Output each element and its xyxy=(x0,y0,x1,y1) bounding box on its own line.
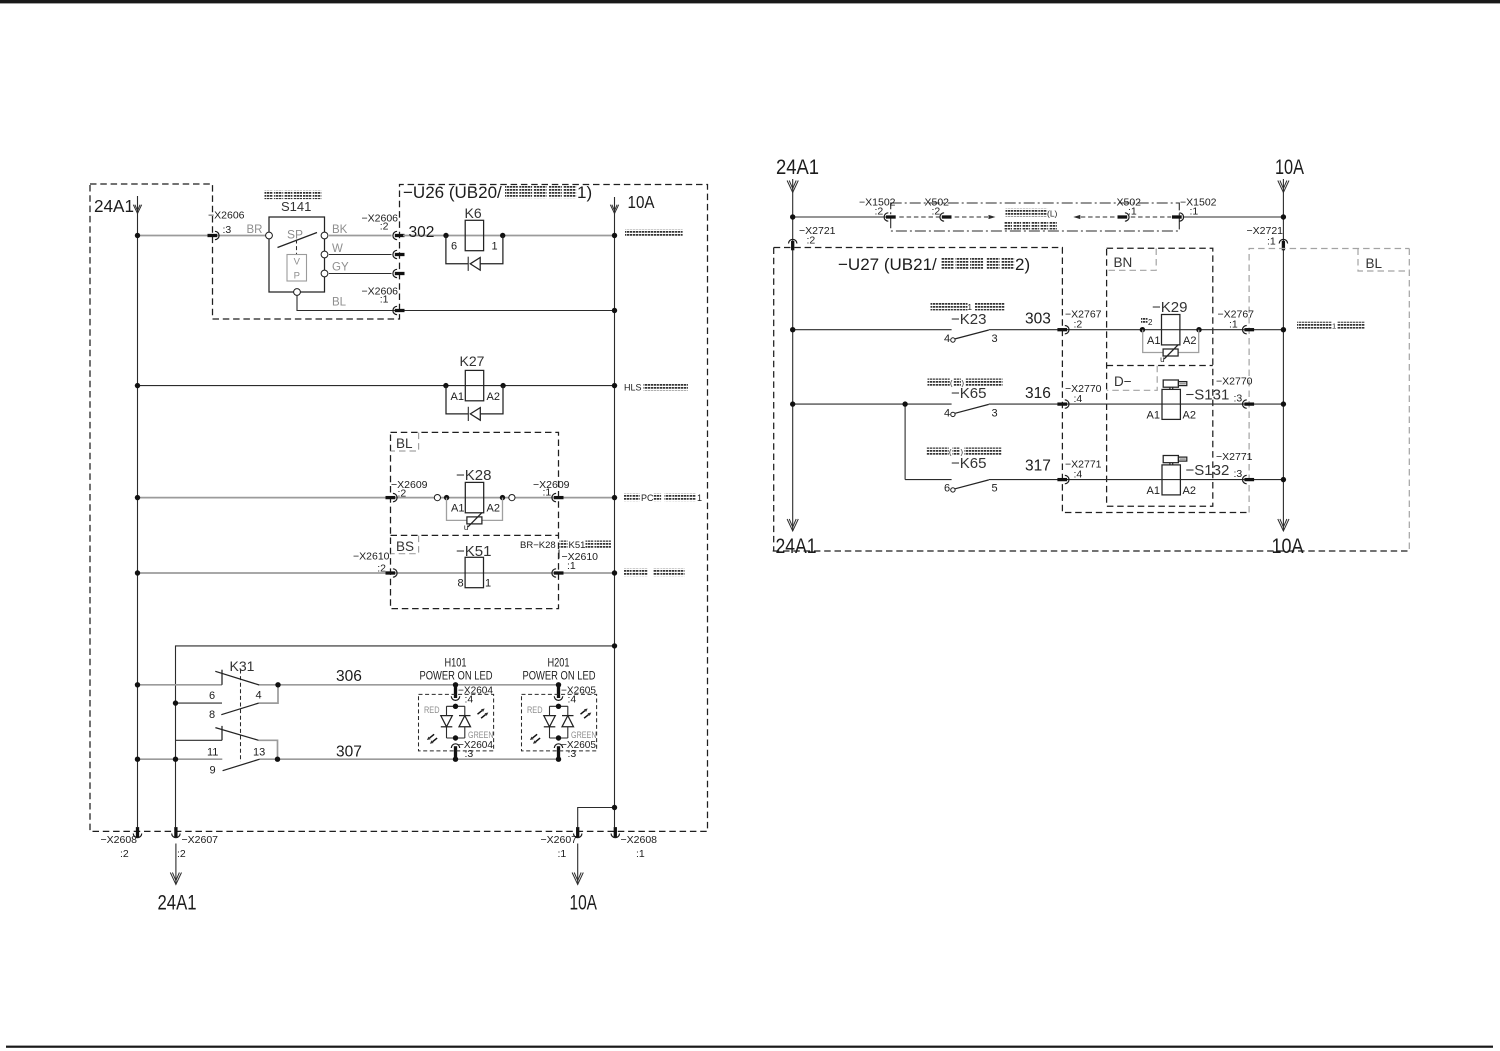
svg-text::2: :2 xyxy=(177,848,186,860)
connector X2606:2 xyxy=(395,234,405,237)
node 24A1 top wire xyxy=(790,214,795,219)
svg-text:−X2605: −X2605 xyxy=(561,685,596,697)
node 316 right xyxy=(1281,401,1286,406)
svg-text:316: 316 xyxy=(1025,385,1051,402)
svg-text:W: W xyxy=(332,243,343,255)
node fan right xyxy=(612,570,617,575)
svg-text::1: :1 xyxy=(380,294,389,306)
outer cable box BL (gray dashed) xyxy=(1249,249,1409,513)
svg-text::1: :1 xyxy=(1128,206,1137,218)
connector X2606:1 xyxy=(395,309,405,312)
node PC left xyxy=(135,495,140,500)
lock solenoid S132 xyxy=(1162,465,1180,495)
svg-text:−X2610: −X2610 xyxy=(353,551,390,563)
svg-text:A1: A1 xyxy=(451,391,464,403)
svg-text:307: 307 xyxy=(336,744,362,761)
rail 24A1 (U27) xyxy=(792,179,794,531)
wire GY xyxy=(329,273,392,275)
svg-text:2: 2 xyxy=(1148,318,1153,327)
K31 pin13 jog (gray) xyxy=(259,740,278,759)
wire W xyxy=(329,254,392,256)
K31 contact lower arm xyxy=(215,728,258,741)
svg-text::3: :3 xyxy=(223,224,232,236)
svg-text::1: :1 xyxy=(543,487,552,499)
svg-text:−X1502: −X1502 xyxy=(1180,197,1217,209)
connector X2770:3 xyxy=(1244,402,1254,405)
cable wire X1502-X502 left xyxy=(899,216,940,218)
svg-text::4: :4 xyxy=(1074,393,1083,405)
svg-text:K6: K6 xyxy=(465,205,482,221)
svg-text:u: u xyxy=(464,523,468,532)
connector X2609:1 xyxy=(554,496,564,499)
node pin4 on 306 xyxy=(275,682,280,687)
svg-text::3: :3 xyxy=(465,748,474,760)
svg-text:A2: A2 xyxy=(487,503,500,515)
label vacuum pump1 power input xyxy=(1297,322,1304,329)
svg-text:−S132: −S132 xyxy=(1186,462,1230,479)
pressure switch S141 label xyxy=(265,191,274,200)
connector X2608:1 xyxy=(614,827,617,838)
svg-text:−K28: −K28 xyxy=(456,467,491,484)
svg-text:RED: RED xyxy=(424,705,440,716)
node HLS right xyxy=(612,383,617,388)
node HLS left xyxy=(135,383,140,388)
lock solenoid S131 xyxy=(1162,389,1180,419)
connector X2609:2 xyxy=(386,496,396,499)
node 307 feed xyxy=(173,757,178,762)
svg-text:1: 1 xyxy=(485,578,491,590)
node PC right xyxy=(612,495,617,500)
svg-text:A2: A2 xyxy=(1183,485,1196,497)
svg-text:1: 1 xyxy=(1332,322,1336,331)
label cover-front lock control xyxy=(927,448,934,455)
lamp H101 (red/green LED) xyxy=(454,687,457,698)
svg-text:SP: SP xyxy=(287,228,303,242)
NO indicator circles K28 xyxy=(434,495,440,501)
node K29 left xyxy=(1140,327,1145,332)
svg-text::1: :1 xyxy=(1267,236,1276,248)
cable tag D- xyxy=(1107,366,1157,391)
cable tag BS xyxy=(391,536,419,554)
svg-text:K31: K31 xyxy=(230,658,255,674)
svg-text::3: :3 xyxy=(1234,468,1243,480)
node 306 left rail xyxy=(135,682,140,687)
svg-text:2): 2) xyxy=(1015,255,1030,274)
svg-text:302: 302 xyxy=(409,224,435,241)
svg-text:−U26 (UB20/: −U26 (UB20/ xyxy=(403,183,502,202)
svg-text:8: 8 xyxy=(458,578,464,590)
svg-text:−U27 (UB21/: −U27 (UB21/ xyxy=(838,255,937,274)
svg-text:317: 317 xyxy=(1025,458,1051,475)
cable tag BL xyxy=(391,433,419,451)
pressure switch S141 body xyxy=(269,217,325,292)
K31 pin4 jog (gray) xyxy=(259,685,278,703)
connector X2606 W pin xyxy=(395,253,405,256)
board U27 boundary (dashed) xyxy=(774,248,1249,513)
top border bar xyxy=(0,0,1500,3)
diode across K6 xyxy=(446,236,468,264)
connector X2606 GY pin xyxy=(395,272,405,275)
svg-text::4: :4 xyxy=(1074,469,1083,481)
wire BK to connector (gray) xyxy=(329,235,392,237)
svg-text::2: :2 xyxy=(875,206,884,218)
arrow 10A in xyxy=(614,197,616,214)
connector X2610:1 xyxy=(554,571,564,574)
wire 10A bottom branch xyxy=(578,808,615,828)
node 316 left xyxy=(790,401,795,406)
top distribution wire xyxy=(793,216,887,218)
node 306 H101 xyxy=(453,682,458,687)
svg-text:24A1: 24A1 xyxy=(776,156,819,179)
cable tag BL (U27) xyxy=(1358,249,1409,272)
cable box around K28/K51 xyxy=(391,432,559,608)
S141 pressure element V/P xyxy=(287,255,307,282)
connector X2721:2 xyxy=(791,241,794,251)
svg-text:6: 6 xyxy=(944,483,950,495)
connector X2608:2 xyxy=(136,827,139,838)
svg-text:−X2606: −X2606 xyxy=(208,210,245,222)
svg-text:8: 8 xyxy=(209,709,215,721)
svg-text:4: 4 xyxy=(944,408,950,420)
varistor across K29 xyxy=(1143,330,1163,353)
svg-text::3: :3 xyxy=(568,748,577,760)
svg-text:−X2604: −X2604 xyxy=(458,739,493,751)
connector X502:1 xyxy=(1118,215,1128,218)
connector X2770:4 xyxy=(1057,402,1067,405)
diode across K27 xyxy=(446,386,468,414)
label PC-group power-on 1 xyxy=(624,494,632,502)
wire 306 (gray) xyxy=(138,684,223,686)
svg-text:H101: H101 xyxy=(445,656,467,670)
svg-text:−X2607: −X2607 xyxy=(182,834,219,846)
rail 10A (U27) xyxy=(1282,179,1284,531)
K31 contact upper arm xyxy=(215,671,259,685)
svg-text::4: :4 xyxy=(568,694,577,706)
svg-text:−X2771: −X2771 xyxy=(1065,459,1102,471)
arrow 24A1 out (U27) xyxy=(787,519,798,531)
node HLS K27 left xyxy=(443,383,448,388)
svg-text:−X2770: −X2770 xyxy=(1065,383,1102,395)
node K28 right xyxy=(500,495,505,500)
connector X502:2 xyxy=(942,215,952,218)
svg-text:−K23: −K23 xyxy=(951,311,986,328)
svg-text:9: 9 xyxy=(210,765,216,777)
K31 pin11 stub xyxy=(176,739,223,741)
svg-text:−X2767: −X2767 xyxy=(1065,309,1102,321)
svg-text:BK: BK xyxy=(332,224,348,236)
connector X1502:1 xyxy=(1172,215,1182,218)
lamp H201 (red/green LED) xyxy=(557,687,560,698)
wire PC-power rail (gray) xyxy=(138,497,615,499)
arrow 10A in (U27) xyxy=(1278,181,1289,193)
svg-text:−K65: −K65 xyxy=(951,385,986,402)
svg-text:11: 11 xyxy=(207,746,218,758)
svg-text:POWER ON LED: POWER ON LED xyxy=(523,671,596,683)
svg-text:−X2604: −X2604 xyxy=(458,685,493,697)
node 306 H201 xyxy=(556,682,561,687)
connector X2767:1 xyxy=(1244,328,1254,331)
cable wire with left arrow xyxy=(1073,215,1080,219)
K31 contact upper fixed tick xyxy=(221,670,223,685)
svg-text:−S131: −S131 xyxy=(1186,387,1230,404)
svg-text:−X2721: −X2721 xyxy=(799,225,836,237)
svg-text:−X2607: −X2607 xyxy=(541,834,578,846)
arrow 24A1 in xyxy=(137,196,139,214)
svg-text::1: :1 xyxy=(1229,319,1238,331)
wire 303 row xyxy=(793,329,952,331)
svg-text::2: :2 xyxy=(380,221,389,233)
wire 307 (gray) xyxy=(138,758,223,760)
node wire302 / K6 xyxy=(443,233,448,238)
svg-text:K51: K51 xyxy=(569,540,586,551)
cable box BN/D (dashed) xyxy=(1107,248,1213,506)
svg-text:−K65: −K65 xyxy=(951,455,986,472)
svg-text:u: u xyxy=(1160,355,1164,364)
K31 pin9 arm xyxy=(223,759,260,771)
svg-text:−X2609: −X2609 xyxy=(533,479,570,491)
svg-text:PC: PC xyxy=(641,493,654,503)
arrow 24A1 in (U27) xyxy=(787,181,798,193)
arrow 10A out xyxy=(577,844,579,885)
svg-text::2: :2 xyxy=(120,848,129,860)
svg-text:(L): (L) xyxy=(1047,209,1058,219)
svg-text:BL: BL xyxy=(396,436,413,451)
svg-text:24A1: 24A1 xyxy=(776,535,817,558)
node branch 316 xyxy=(902,401,907,406)
tray safety circuit box (chain line) xyxy=(891,203,1180,231)
node 303 left xyxy=(790,327,795,332)
left rail 24A1 xyxy=(137,213,139,827)
svg-text:6: 6 xyxy=(209,690,215,702)
feedback wire from 10A rail xyxy=(176,646,615,827)
svg-text::1: :1 xyxy=(567,560,576,572)
wire BR (gray) xyxy=(138,235,266,237)
svg-text:BS: BS xyxy=(396,539,414,554)
svg-text:BL: BL xyxy=(332,297,347,309)
svg-text:1: 1 xyxy=(697,493,702,503)
svg-text:10A: 10A xyxy=(628,192,655,212)
svg-text:3: 3 xyxy=(992,408,998,420)
svg-text:H201: H201 xyxy=(548,656,570,670)
svg-text:24A1: 24A1 xyxy=(94,196,134,216)
svg-text:RED: RED xyxy=(527,705,543,716)
node 10A top wire xyxy=(1281,214,1286,219)
svg-text:24A1: 24A1 xyxy=(158,891,197,915)
svg-text:303: 303 xyxy=(1025,311,1051,328)
svg-text:HLS: HLS xyxy=(624,383,642,393)
svg-text::2: :2 xyxy=(398,488,407,500)
arrow 24A1 out xyxy=(175,844,177,885)
svg-text:−X2771: −X2771 xyxy=(1216,451,1253,463)
svg-text:A2: A2 xyxy=(487,391,500,403)
cable wire with right arrow xyxy=(955,216,988,218)
node pin13 on 307 xyxy=(275,757,280,762)
svg-text:1): 1) xyxy=(577,183,592,202)
wire HLS rail xyxy=(138,385,615,387)
svg-text:GY: GY xyxy=(332,262,349,274)
node BL right rail xyxy=(612,308,617,313)
svg-text:BL: BL xyxy=(1366,256,1383,271)
wire BL from S141 bottom xyxy=(297,295,615,310)
connector X2610:2 xyxy=(386,571,396,574)
label vacuum pump1 power control xyxy=(931,303,938,310)
label cover-rear lock control xyxy=(928,379,935,386)
svg-text::2: :2 xyxy=(377,563,386,575)
svg-text:A2: A2 xyxy=(1183,335,1196,347)
svg-text:4: 4 xyxy=(256,689,262,701)
svg-text:A1: A1 xyxy=(451,503,464,515)
K31 mechanical link xyxy=(240,670,242,763)
cable wire X502-X1502 right xyxy=(1131,216,1171,218)
wire 302 (gray) xyxy=(403,235,615,237)
svg-text:−X2608: −X2608 xyxy=(621,834,658,846)
svg-text::3: :3 xyxy=(1234,393,1243,405)
svg-text:10A: 10A xyxy=(1275,156,1304,179)
svg-text:BR−K28: BR−K28 xyxy=(520,540,556,551)
svg-text:6: 6 xyxy=(451,241,457,253)
svg-text::1: :1 xyxy=(558,848,567,860)
cable tag BN xyxy=(1107,249,1156,271)
svg-text:POWER ON LED: POWER ON LED xyxy=(420,671,493,683)
tray box label xyxy=(1006,209,1014,217)
arrow 10A out (U27) xyxy=(1278,519,1289,531)
svg-text:−K29: −K29 xyxy=(1152,299,1187,316)
svg-text:P: P xyxy=(294,271,300,282)
K31 pin6 stub xyxy=(176,702,223,704)
K31 contact lower fixed tick xyxy=(221,726,223,740)
svg-text:A1: A1 xyxy=(1147,335,1160,347)
svg-text:306: 306 xyxy=(336,668,362,685)
label air-pressure-low output xyxy=(625,230,632,237)
svg-text:A2: A2 xyxy=(1183,410,1196,422)
svg-text:1: 1 xyxy=(492,241,498,253)
svg-text::4: :4 xyxy=(465,694,474,706)
connector X2767:2 xyxy=(1057,328,1067,331)
svg-text:A1: A1 xyxy=(1147,485,1160,497)
svg-text:−X2770: −X2770 xyxy=(1216,376,1253,388)
svg-text::2: :2 xyxy=(1074,319,1083,331)
svg-text::2: :2 xyxy=(932,206,941,218)
wire 317 row xyxy=(905,479,952,481)
connector X2607:1 xyxy=(576,827,579,838)
svg-text:BR: BR xyxy=(247,224,263,236)
node K29 right xyxy=(1196,327,1201,332)
svg-text:S141: S141 xyxy=(281,199,311,214)
node K28 left xyxy=(444,495,449,500)
K31 pin8 arm xyxy=(221,703,258,715)
node 307 left rail xyxy=(135,757,140,762)
svg-text::2: :2 xyxy=(807,235,816,247)
svg-text:−X2605: −X2605 xyxy=(561,739,596,751)
wire fan rail (gray) xyxy=(138,572,615,574)
label fan power-on xyxy=(624,569,632,577)
svg-text:13: 13 xyxy=(253,746,265,758)
node HLS K27 right xyxy=(500,383,505,388)
node 307 H201 xyxy=(556,757,561,762)
node 307 H101 xyxy=(453,757,458,762)
connector X2771:4 xyxy=(1057,478,1067,481)
connector X2771:3 xyxy=(1244,478,1254,481)
svg-text:V: V xyxy=(294,257,301,268)
right rail 10A xyxy=(614,213,616,827)
node bottom branch xyxy=(612,805,617,810)
svg-text:−X2608: −X2608 xyxy=(101,834,138,846)
svg-text:10A: 10A xyxy=(1272,535,1304,558)
svg-text:10A: 10A xyxy=(570,891,598,915)
connector X1502:2 xyxy=(886,215,896,218)
node pin6 stub xyxy=(173,700,178,705)
node left rail / wire 302 xyxy=(135,233,140,238)
node 303 right xyxy=(1281,327,1286,332)
svg-text:K27: K27 xyxy=(460,353,485,369)
svg-text::1: :1 xyxy=(1190,206,1199,218)
node feedback right rail xyxy=(612,643,617,648)
connector X2607:2 xyxy=(174,827,177,838)
note 2 xyxy=(1141,318,1148,325)
svg-text:BN: BN xyxy=(1114,255,1133,270)
varistor across K28 xyxy=(447,498,467,521)
branch to 317 xyxy=(904,404,906,480)
connector X2606:3 xyxy=(208,234,218,237)
node 302 right rail xyxy=(612,233,617,238)
svg-text:D−: D− xyxy=(1114,374,1132,389)
board U26 boundary (dashed outline with S141 notch) xyxy=(90,184,708,831)
svg-text:3: 3 xyxy=(992,333,998,345)
svg-text::1: :1 xyxy=(636,848,645,860)
svg-text:5: 5 xyxy=(992,483,998,495)
svg-text:4: 4 xyxy=(944,333,950,345)
node fan left xyxy=(135,570,140,575)
bottom border line xyxy=(6,1046,1493,1048)
connector X2721:1 xyxy=(1282,241,1285,251)
svg-text:−X2721: −X2721 xyxy=(1247,225,1284,237)
wire 316 row xyxy=(793,403,952,405)
node 317 right xyxy=(1281,477,1286,482)
svg-text:−X2609: −X2609 xyxy=(391,479,428,491)
svg-text:A1: A1 xyxy=(1147,410,1160,422)
